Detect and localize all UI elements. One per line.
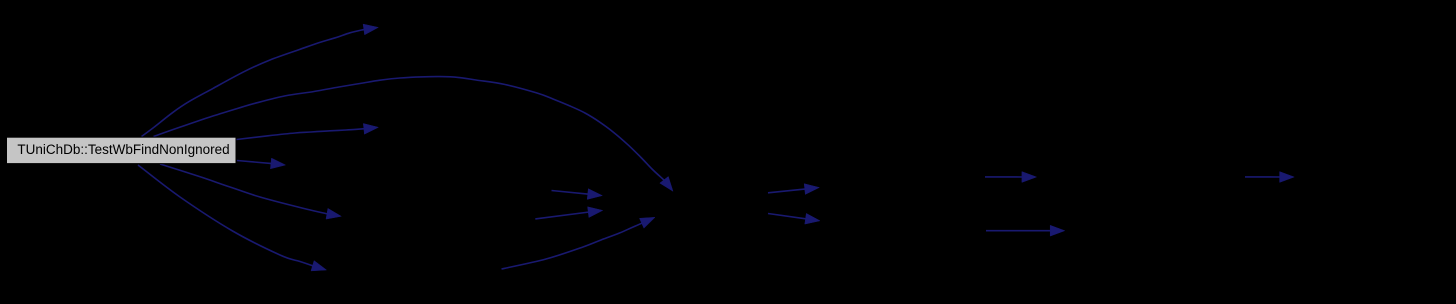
edge: TestWbFindNonIgnored -> node B (short arrow) bbox=[237, 158, 286, 169]
edge: node A -> middle node (upper short arrow) bbox=[552, 189, 603, 200]
edge: TestWbFindNonIgnored -> node C bbox=[160, 164, 341, 219]
node: TUniChDb::TestWbFindNonIgnored (grey filled box) bbox=[7, 137, 237, 163]
edge: node F -> node H bbox=[986, 225, 1065, 236]
svg-text:TUniChDb::TestWbFindNonIgnored: TUniChDb::TestWbFindNonIgnored bbox=[17, 142, 229, 157]
edge: TestWbFindNonIgnored -> node A bbox=[237, 124, 379, 140]
edge: TestWbFindNonIgnored -> middle node (long arc) bbox=[154, 77, 674, 192]
edge: TestWbFindNonIgnored -> node D bbox=[138, 165, 327, 271]
edge: node E -> node G bbox=[985, 172, 1037, 183]
edge: node C -> middle node (lower short arrow) bbox=[535, 207, 602, 219]
edge: TestWbFindNonIgnored -> node T (top curve) bbox=[142, 24, 379, 136]
edge: node G -> node I bbox=[1245, 172, 1294, 183]
edge: node D -> middle node (rising curve) bbox=[502, 217, 656, 269]
edge: middle node -> node E bbox=[768, 184, 819, 195]
edge: middle node -> node F bbox=[768, 213, 820, 224]
